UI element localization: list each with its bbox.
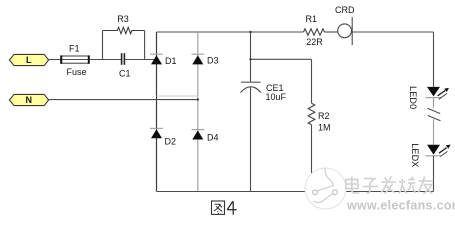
wire CE1 branch lower	[250, 87, 252, 192]
svg-text:10uF: 10uF	[266, 92, 287, 102]
watermark text dianzi fashaoyou	[346, 177, 433, 194]
junction R2 tap	[249, 58, 251, 60]
svg-text:D3: D3	[207, 56, 219, 66]
char zi	[363, 179, 378, 194]
wire LED0 to break	[433, 98, 435, 108]
LED LED0	[425, 87, 449, 99]
capacitor CE1	[241, 82, 261, 92]
break symbol (series LEDs omitted)	[428, 108, 441, 121]
resistor R2	[308, 103, 315, 125]
current regulating diode CRD	[338, 17, 353, 45]
capacitor C1	[122, 53, 125, 65]
port L	[9, 54, 48, 65]
wire bridge right branch	[197, 32, 199, 192]
wire LED column upper	[433, 32, 435, 87]
junction CE1 top rail	[249, 31, 251, 33]
wire N input	[49, 99, 198, 101]
diode D3	[192, 54, 205, 64]
wire C1 to bridge	[124, 59, 156, 61]
svg-text:D1: D1	[165, 56, 177, 66]
wire R3 branch right vertical	[144, 31, 146, 60]
char fa	[381, 177, 396, 194]
wire CE1 branch upper	[250, 32, 252, 82]
port N	[9, 94, 48, 105]
diode D2	[150, 128, 163, 138]
char dian	[346, 177, 360, 194]
wire R3 branch left vertical	[102, 31, 104, 60]
wire R2 upper vertical	[311, 59, 313, 103]
diode D1	[150, 54, 163, 64]
resistor R3	[103, 27, 145, 33]
wire break to LEDX	[433, 119, 435, 145]
svg-text:22R: 22R	[306, 37, 323, 47]
wire LEDX to bottom rail	[433, 156, 435, 192]
wire R2 tap horizontal	[251, 58, 312, 60]
svg-text:R2: R2	[318, 111, 330, 121]
wire top rail	[157, 31, 304, 33]
wire R1 to CRD	[325, 31, 338, 33]
svg-text:LED0: LED0	[408, 86, 418, 109]
svg-text:Fuse: Fuse	[67, 67, 87, 77]
wire bridge middle faint link	[157, 95, 198, 97]
svg-text:CRD: CRD	[335, 5, 355, 15]
junction N at right branch	[197, 98, 199, 100]
watermark logo disk	[305, 168, 346, 210]
fuse F1	[61, 55, 89, 63]
wire bottom rail	[157, 191, 434, 193]
wire L to fuse	[49, 59, 62, 61]
wire fuse to C1	[89, 59, 122, 61]
char you	[418, 177, 433, 194]
svg-text:LEDX: LEDX	[410, 143, 420, 167]
wire R2 lower vertical	[311, 125, 313, 192]
svg-text:C1: C1	[119, 69, 131, 79]
svg-text:D4: D4	[207, 132, 219, 142]
svg-text:1M: 1M	[318, 123, 331, 133]
svg-text:R3: R3	[117, 14, 129, 24]
caption figure 4	[212, 201, 225, 214]
svg-text:L: L	[26, 55, 32, 65]
svg-text:www.elecfans.com: www.elecfans.com	[346, 199, 455, 213]
svg-text:F1: F1	[69, 44, 80, 54]
svg-text:D2: D2	[165, 136, 177, 146]
char shao	[399, 177, 416, 194]
diode D4	[192, 130, 205, 140]
resistor R1	[304, 29, 325, 35]
LED LEDX	[425, 145, 450, 157]
svg-text:N: N	[26, 95, 33, 105]
wire CRD to LED column	[352, 31, 433, 33]
wire bridge left branch	[156, 32, 158, 192]
svg-text:R1: R1	[306, 14, 318, 24]
